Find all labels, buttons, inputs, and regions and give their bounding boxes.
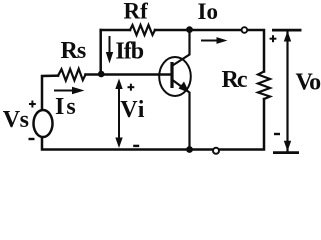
wire Rc to bottom right corner (220, 99, 265, 150)
svg-text:Vi: Vi (120, 97, 145, 123)
svg-text:Io: Io (198, 0, 218, 24)
voltage source Vs (34, 110, 53, 137)
terminal top output (242, 27, 248, 33)
svg-text:Vo: Vo (296, 70, 321, 96)
wire bottom left (42, 137, 190, 150)
transistor Q1 (159, 30, 191, 150)
arrow Io (201, 37, 228, 44)
svg-text:Rf: Rf (124, 0, 149, 24)
plus sign Vo (270, 35, 277, 42)
wire top terminal to Rc corner (248, 30, 264, 72)
wire Rs to transistor base (86, 73, 173, 76)
Vo dimension arrow (272, 30, 302, 153)
svg-text:Vs: Vs (3, 107, 29, 133)
svg-text:Rs: Rs (61, 38, 86, 64)
wire Rf branch vertical (99, 30, 102, 75)
node junction Rs/Rf/base (98, 71, 105, 78)
wire top left to Rf (101, 29, 130, 32)
minus sign Vs (29, 138, 35, 140)
wire left branch: Vs top to Rs (42, 76, 58, 110)
node junction bottom emitter (186, 146, 193, 153)
svg-text:Rc: Rc (222, 67, 248, 93)
plus sign Vi (128, 84, 135, 91)
plus sign Vs (29, 101, 36, 108)
arrow Is (54, 87, 85, 94)
wire Rf to top terminal (155, 29, 241, 32)
arrow Ifb (106, 36, 113, 64)
wire bottom terminal to emitter junction (190, 148, 213, 151)
arrow Vi (double headed) (115, 79, 122, 149)
resistor Rf (130, 25, 155, 35)
terminal bottom output (213, 148, 219, 154)
svg-text:Ifb: Ifb (115, 38, 143, 64)
minus sign Vo (274, 133, 280, 135)
resistor Rc (258, 72, 270, 100)
svg-text:Is: Is (55, 94, 78, 120)
emitter arrowhead (179, 82, 190, 94)
minus sign Vi (133, 145, 139, 147)
node junction top collector (186, 26, 193, 33)
resistor Rs (58, 69, 86, 81)
